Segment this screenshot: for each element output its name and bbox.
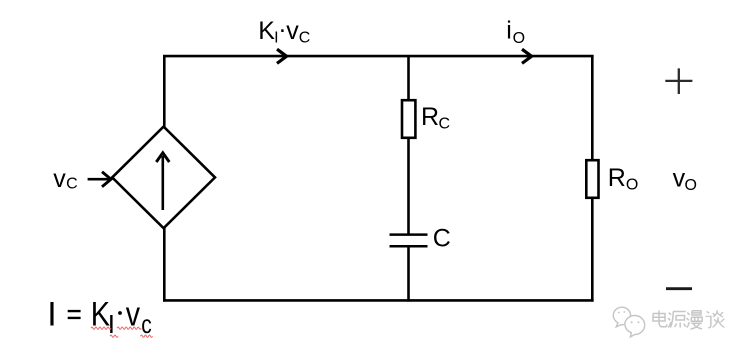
svg-text:R: R [608, 164, 626, 192]
svg-text:O: O [626, 176, 638, 193]
svg-text:O: O [685, 177, 697, 194]
svg-text:C: C [66, 175, 78, 192]
svg-text:C: C [433, 224, 451, 252]
svg-text:I: I [47, 296, 56, 334]
svg-text:·: · [278, 16, 286, 44]
svg-text:C: C [439, 115, 451, 132]
svg-text:v: v [53, 165, 66, 193]
svg-text:i: i [506, 16, 512, 44]
svg-text:v: v [286, 17, 299, 45]
svg-text:K: K [258, 17, 275, 45]
svg-text:C: C [299, 30, 311, 47]
svg-text:c: c [141, 309, 152, 339]
svg-text:O: O [513, 30, 525, 47]
svg-text:R: R [421, 103, 439, 131]
svg-text:I: I [108, 309, 115, 339]
